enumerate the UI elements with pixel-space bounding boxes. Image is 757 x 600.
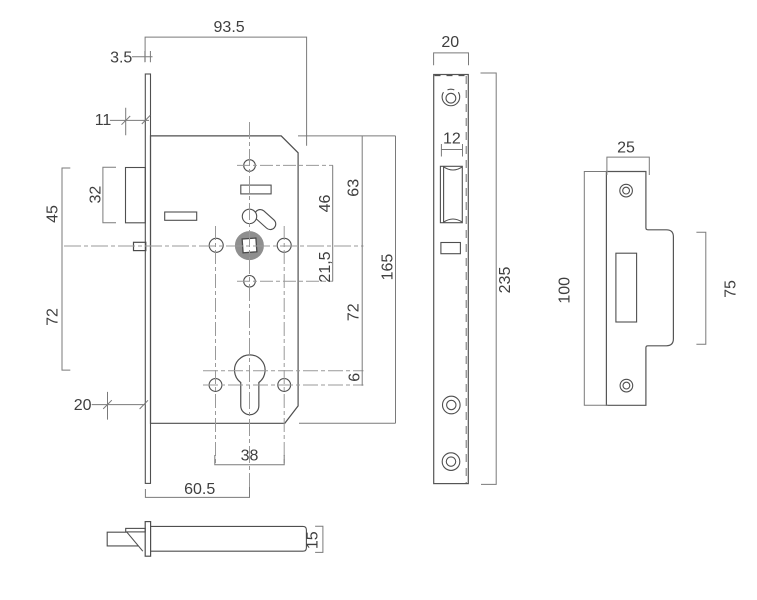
strike bottom screw hole [620,379,633,392]
svg-text:15: 15 [304,531,321,549]
svg-text:100: 100 [557,277,574,304]
svg-text:235: 235 [497,267,514,294]
dimension bracket 165 bottom tick [299,422,396,424]
small rect inside body (left) [165,212,197,220]
svg-text:3.5: 3.5 [110,49,132,66]
svg-text:72: 72 [45,308,62,326]
lower-left side hole [209,379,222,392]
small rect above hub [241,185,271,194]
dimension bracket 45/72 [62,168,70,370]
faceplate mid screw hole [443,396,461,414]
faceplate bottom screw hole [442,453,460,471]
aux pin cutout [441,243,461,254]
dimension bracket 15 [315,526,323,552]
lower hole [244,276,256,288]
dimension 11 leader and ticks [110,108,150,136]
lever circle [242,209,256,223]
thin guide bar [126,528,146,532]
latch cutout with latch face [440,166,462,222]
dimension bracket 32 [103,167,116,223]
svg-text:165: 165 [380,254,397,281]
latch case long body [151,526,307,551]
auxiliary pin rect on faceplate [134,242,146,250]
dimension 25 [607,157,649,175]
dimension 60.5 [145,487,249,497]
svg-text:20: 20 [441,34,459,51]
centerline horizontal through spindle [64,245,364,247]
latch bolt block (left protrusion) [126,168,146,223]
svg-text:75: 75 [723,280,740,298]
dimension 93.5 [145,37,307,146]
strike cutout [616,253,637,322]
centerline vertical left holes [215,226,217,464]
bottom faceplate cross-section [145,522,150,557]
dimension bracket 165 [395,136,397,423]
dimension bracket 46/21.5 [332,165,334,281]
svg-text:38: 38 [241,448,259,465]
dimension bracket 165 top tick [298,135,396,137]
svg-text:11: 11 [95,112,112,129]
centerline horizontal through top hole [237,164,333,166]
centerline horizontal through side holes [203,384,364,386]
dimension bracket 235 [481,73,497,484]
svg-text:60.5: 60.5 [184,481,215,498]
faceplate side strip [145,74,150,483]
svg-text:63: 63 [346,179,363,197]
svg-text:21,5: 21,5 [317,251,334,282]
dimension bracket 75 [696,232,705,344]
svg-text:20: 20 [74,397,92,414]
spindle square hole [242,238,257,253]
spindle hub gray disc [235,231,264,260]
svg-text:12: 12 [443,131,461,148]
svg-text:45: 45 [45,205,62,223]
lower-right side hole [278,379,291,392]
right fixing hole [277,238,291,252]
hidden dashes right inside [465,76,467,483]
centerline vertical through spindle/cylinder [249,122,251,500]
svg-text:93.5: 93.5 [214,19,245,36]
latch bolt with bevel [107,532,143,551]
strike plate outline [606,172,673,406]
top hole [244,160,256,172]
dimension 20 (faceplate width) [434,53,469,65]
centerline horizontal through lower hole [237,280,333,282]
faceplate top screw hole [442,89,460,106]
dimension bracket 100 [584,172,608,406]
euro cylinder profile [235,355,266,415]
strike top screw hole [620,184,633,197]
lever blob [252,207,278,232]
faceplate front outline [434,75,469,484]
dimension bracket 63/72/6 [361,136,363,386]
dimension 12 [441,144,462,157]
svg-text:25: 25 [617,139,635,156]
dimension 3.5 leader [132,51,153,62]
left fixing hole [209,238,223,252]
centerline vertical right holes [283,226,285,464]
svg-text:46: 46 [317,195,334,213]
lock body outline with chamfered right corners [151,136,299,423]
dimension 20 left leader and ticks [92,392,148,420]
dimension 38 [215,455,284,465]
svg-text:6: 6 [346,373,363,382]
svg-text:32: 32 [88,186,105,204]
hidden dashes top edge [435,75,469,77]
centerline horizontal through cylinder [203,370,364,372]
svg-text:72: 72 [346,303,363,321]
